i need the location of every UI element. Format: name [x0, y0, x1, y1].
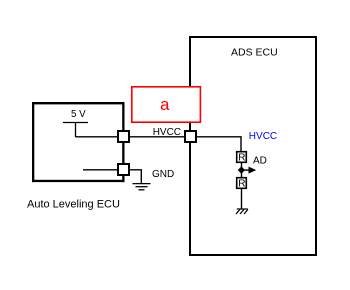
- box a (flagged connector): [132, 87, 201, 122]
- svg-text:Auto Leveling ECU: Auto Leveling ECU: [27, 199, 120, 211]
- connector pin HVCC on ADS ECU: [185, 131, 196, 142]
- node junction diamond: [238, 166, 245, 173]
- wire HVCC net: left pin to ADS pin: [123, 136, 190, 138]
- 5V supply rail bar: [63, 122, 88, 124]
- wire ADS pin to resistor divider: [190, 137, 241, 152]
- connector pin GND on left box: [118, 164, 129, 175]
- ADS ECU U2 box: [190, 37, 316, 255]
- wire R1 to R2: [241, 163, 243, 179]
- svg-text:ADS ECU: ADS ECU: [231, 46, 278, 58]
- wire GND pin to ground: [123, 170, 141, 183]
- Auto Leveling ECU U1 box: [32, 102, 125, 182]
- svg-text:AD: AD: [253, 156, 267, 167]
- svg-text:HVCC: HVCC: [249, 131, 277, 142]
- wire GND stub inside left box: [83, 169, 123, 171]
- wire 5V to HVCC pin: [76, 136, 124, 138]
- connector pin HVCC on left box: [118, 131, 129, 142]
- arrow to AD: [242, 169, 251, 171]
- ground GND signal symbol: [133, 184, 151, 190]
- resistor R2: [237, 178, 247, 189]
- svg-text:5 V: 5 V: [71, 109, 86, 120]
- svg-text:R: R: [238, 179, 245, 190]
- wire R2 to chassis ground: [241, 189, 243, 210]
- chassis ground symbol: [236, 209, 248, 214]
- svg-text:a: a: [160, 95, 170, 114]
- wire 5V drop: [75, 123, 77, 138]
- svg-text:GND: GND: [152, 169, 174, 180]
- svg-text:HVCC: HVCC: [153, 127, 181, 138]
- svg-text:R: R: [238, 153, 245, 164]
- resistor R1: [237, 152, 247, 163]
